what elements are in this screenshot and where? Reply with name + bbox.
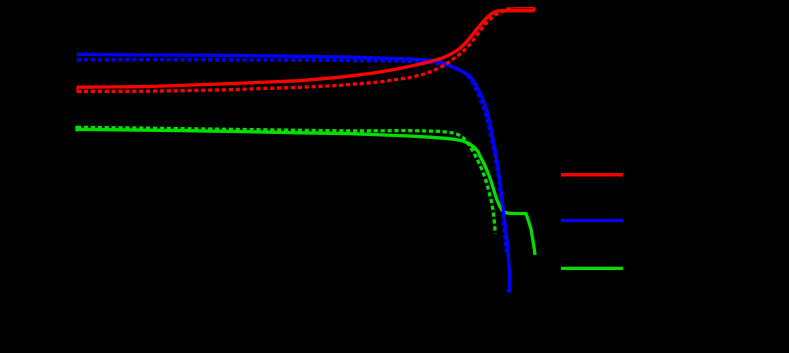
- legend sample: blue solid: [561, 219, 623, 222]
- green solid curve: [77, 126, 535, 255]
- red dashed curve: [77, 9, 513, 92]
- red return branch (thin upper line at plateau): [506, 7, 535, 10]
- legend sample: red solid: [561, 173, 623, 176]
- legend sample: green solid: [561, 267, 623, 270]
- blue dashed curve: [77, 60, 506, 252]
- green dashed curve: [77, 127, 495, 233]
- blue solid curve: [77, 54, 510, 291]
- red solid curve: [77, 8, 536, 87]
- red left end tick: [76, 86, 78, 93]
